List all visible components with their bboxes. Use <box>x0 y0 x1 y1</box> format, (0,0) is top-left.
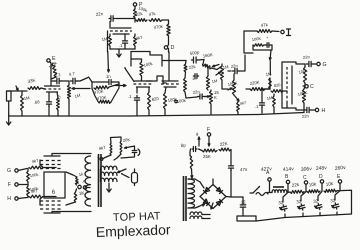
resistor 4k7 s4 <box>234 95 239 115</box>
ground input <box>7 114 11 125</box>
resistor 470K a <box>92 82 119 89</box>
label 470K b <box>96 95 107 101</box>
wire to 470k <box>162 20 169 24</box>
ground V4 <box>117 50 121 57</box>
resistor 10K fb <box>253 44 264 46</box>
label 22n H <box>302 113 310 119</box>
triode V1 <box>44 86 61 92</box>
label 22n top <box>95 11 104 17</box>
resistor 4k7 H <box>29 195 56 198</box>
tube box 6 <box>44 172 65 198</box>
capacitor 47n <box>229 163 248 172</box>
wire fb box <box>253 45 272 50</box>
wire input to grid <box>11 86 27 91</box>
resistor 10k psu a <box>307 190 320 193</box>
junction arrow V2 grid <box>115 85 126 87</box>
speaker jack <box>132 169 138 186</box>
label 100k GF <box>29 172 38 178</box>
title TOP HAT <box>113 210 161 224</box>
capacitor 22n to H <box>304 107 315 112</box>
wire PI rail <box>258 107 304 115</box>
resistor 33K <box>28 87 41 90</box>
resistor 100k s4 divider <box>184 78 187 98</box>
resistor 4k7 G <box>29 166 56 169</box>
svg-text:H: H <box>7 196 11 202</box>
NFB resistor 4k7 <box>98 143 112 155</box>
resistor 470k top <box>167 24 170 36</box>
svg-text:47n: 47n <box>240 167 248 172</box>
resistor 47k top <box>149 19 162 22</box>
wire bridge top corner <box>212 179 214 185</box>
label 100k FH <box>29 186 38 192</box>
svg-text:427v: 427v <box>261 166 273 173</box>
power tube V7 <box>40 197 63 214</box>
label 1k top <box>78 171 84 177</box>
node H in <box>7 196 27 202</box>
svg-text:J: J <box>97 155 99 159</box>
resistor 100k PI top <box>304 64 307 83</box>
capacitor 1n bright <box>92 80 119 85</box>
resistor 820 cathode V2 <box>148 87 151 115</box>
node F in <box>8 182 28 188</box>
resistor 1M V4 <box>109 34 112 49</box>
capacitor 22n to I <box>228 55 245 74</box>
label 4k7 H <box>30 188 38 194</box>
resistor 22k top <box>136 19 147 22</box>
capacitor 22n top <box>109 16 135 21</box>
switch OT jack <box>121 173 129 178</box>
svg-text:C: C <box>303 175 307 181</box>
wire 47n down <box>230 170 232 197</box>
label 22n s4 <box>192 89 200 95</box>
capacitor fb <box>266 35 270 47</box>
resistor 1K screen bottom <box>66 189 77 205</box>
capacitor 32 E <box>330 191 340 215</box>
label 1M s4 <box>222 64 229 70</box>
wire rail right end <box>344 190 352 214</box>
node C psu <box>303 175 308 192</box>
capacitor 1n s4 <box>193 74 198 79</box>
resistor 10k psu b <box>324 189 337 192</box>
label 500p <box>189 50 200 56</box>
capacitor .1 V4 <box>123 34 128 49</box>
resistor 220K <box>246 88 268 91</box>
node A pwr <box>83 179 91 189</box>
label 100K PI bot <box>297 90 308 97</box>
arrow fb down <box>269 50 271 75</box>
node E <box>47 56 56 79</box>
label 1K bottom <box>79 190 86 196</box>
label 10k psu b <box>325 181 334 187</box>
power tube V6 <box>40 156 63 169</box>
label 1M V4 <box>101 36 108 42</box>
capacitor 8u <box>180 142 202 155</box>
triode V2 <box>134 81 153 87</box>
label 414v <box>283 166 295 173</box>
capacitor 32 first <box>240 197 246 216</box>
triode V4 top <box>110 22 132 35</box>
arrow psu down <box>191 169 193 178</box>
svg-text:F: F <box>8 182 11 188</box>
power transformer secondary <box>188 179 195 208</box>
label .1 V4 <box>119 43 123 48</box>
svg-text:H: H <box>322 108 326 114</box>
ground rail psu <box>256 214 352 221</box>
wire bridge out <box>226 196 243 199</box>
label 100k V2 <box>143 61 154 68</box>
label 1M tail <box>266 95 273 101</box>
label 1n <box>106 74 111 79</box>
node G out <box>317 62 327 68</box>
svg-text:20K: 20K <box>122 137 130 143</box>
label 47k top <box>148 11 156 17</box>
capacitor .1 cathode V2 <box>134 87 139 115</box>
label 470K a <box>93 89 104 95</box>
resistor 1k screen top <box>66 172 78 185</box>
standby switch <box>250 186 260 193</box>
pot 10K s4 <box>228 74 236 95</box>
ground rail main <box>9 115 258 117</box>
capacitor 32 B <box>278 192 288 216</box>
choke L1 <box>272 187 287 193</box>
input jack J1 <box>7 91 12 114</box>
label 15K s4 <box>214 90 219 100</box>
power tube V7 plate lead <box>52 212 91 214</box>
label 22k psu2 <box>291 182 300 188</box>
node B psu <box>285 174 290 192</box>
resistor 22k psu <box>287 190 304 193</box>
resistor 1M PI tail <box>273 94 276 113</box>
node A psu <box>266 170 272 193</box>
svg-text:1M: 1M <box>211 78 217 84</box>
node G in <box>7 168 27 174</box>
switch bright <box>77 76 92 82</box>
label 100k s4 divider <box>175 98 187 104</box>
label 306v <box>301 166 313 173</box>
resistor 100k GF <box>27 169 30 185</box>
capacitor 22n to G <box>306 61 316 66</box>
label 427v <box>261 166 273 173</box>
wire box right <box>131 19 162 67</box>
label 10k psu a <box>308 181 317 187</box>
svg-text:K: K <box>214 95 217 100</box>
wire 33K to V1 grid <box>41 88 45 89</box>
svg-text:1n: 1n <box>192 76 196 81</box>
label 100K fb <box>251 36 261 42</box>
label 22k s4 <box>188 64 196 70</box>
power transformer heater winding <box>190 212 210 219</box>
node F psu <box>207 127 211 146</box>
label 2k7 <box>55 94 62 102</box>
label 260v <box>335 165 347 172</box>
label 4.7 <box>68 71 75 77</box>
bridge rectifier D3 <box>213 185 226 197</box>
resistor 1M grid leak <box>21 91 24 116</box>
node E psu <box>337 174 344 191</box>
NFB wires <box>97 137 121 160</box>
label .1 V2 <box>128 94 132 99</box>
power tube V6 plate lead <box>52 154 91 157</box>
node D psu <box>319 174 324 191</box>
output transformer primary <box>85 156 91 206</box>
svg-text:248v: 248v <box>316 165 328 172</box>
wire s4 links <box>206 65 228 90</box>
label 2.2 <box>54 72 61 78</box>
resistor 22K psu <box>219 148 231 151</box>
output transformer core <box>99 154 102 207</box>
resistor 100K PI bottom <box>303 86 306 107</box>
svg-text:G: G <box>7 168 11 174</box>
resistor 820 PI <box>271 90 283 93</box>
label 1M gain <box>74 92 81 98</box>
label 820 PI <box>273 82 281 88</box>
switch V2 grid <box>124 67 134 81</box>
resistor 22k s4 <box>184 61 187 79</box>
node B pwr <box>76 180 81 189</box>
resistor mid s4 <box>207 67 210 90</box>
title Emplexador <box>96 221 172 240</box>
wire PI grid-in <box>283 91 287 108</box>
pot 1M s4 <box>216 64 224 80</box>
capacitor 4.7 <box>70 78 77 83</box>
label 470k top <box>153 24 164 30</box>
arrow bridge gnd <box>203 199 213 209</box>
tube V5 phase inverter <box>282 66 292 104</box>
svg-text:Emplexador: Emplexador <box>96 221 172 240</box>
wire long top-loop <box>108 31 110 72</box>
capacitor 500p s4 <box>163 57 204 63</box>
resistor 100k plate V2 <box>140 59 143 81</box>
tap arrow OT <box>118 169 127 173</box>
wire D to V3 plate <box>168 49 170 53</box>
label 1M PI <box>265 71 272 77</box>
wire cathode bus V4 <box>110 49 135 50</box>
wire I-block left <box>244 31 253 53</box>
wire squiggle <box>256 193 268 196</box>
label 1M mid s4 <box>211 78 217 84</box>
label 4k7 s4 <box>239 100 247 106</box>
label 22K psu <box>219 141 228 147</box>
label 33K <box>27 77 36 84</box>
wire 470k down / D <box>168 36 170 45</box>
bridge rectifier D1 <box>200 185 213 197</box>
resistor psu drop <box>190 156 193 170</box>
wire PI bottom plate <box>282 104 303 110</box>
svg-text:25K: 25K <box>203 154 211 159</box>
label 25K <box>203 154 211 159</box>
wire psu bottom box <box>237 216 256 221</box>
node I <box>281 29 291 36</box>
bridge rectifier D4 <box>213 197 226 209</box>
node D <box>164 45 174 52</box>
triode V3 <box>161 81 179 87</box>
label 100k PI top <box>298 68 309 75</box>
capacitor 32 D <box>313 191 322 215</box>
svg-text:D: D <box>171 45 175 51</box>
NFB pot 20K <box>120 137 132 154</box>
wire bridge in top <box>195 179 204 188</box>
resistor 1M PI grid <box>268 78 271 89</box>
capacitor 32 C <box>296 192 306 216</box>
label 22k top <box>135 11 143 17</box>
label 4k7 G <box>31 158 39 164</box>
capacitor .1 PI <box>260 89 271 113</box>
output transformer secondary <box>101 166 118 181</box>
label 220K <box>249 80 260 86</box>
label 100k E <box>48 60 59 70</box>
wire bridge in bottom <box>195 203 205 208</box>
svg-text:22n: 22n <box>302 113 310 119</box>
node P <box>133 2 143 9</box>
capacitor .68 cathode <box>47 92 52 116</box>
node C <box>303 83 314 90</box>
pot 1M gain <box>68 81 91 116</box>
label 248v <box>316 165 328 172</box>
label 820 V2 <box>151 96 159 102</box>
svg-text:414v: 414v <box>283 166 295 173</box>
label 22n I <box>230 63 238 69</box>
svg-text:22n: 22n <box>230 63 238 69</box>
resistor 100K P <box>134 9 137 18</box>
pot 160K s4 <box>203 60 223 70</box>
wire PI top plate <box>282 62 305 66</box>
resistor 100k cathode V3 <box>164 87 167 115</box>
resistor 2k7 cathode <box>57 92 60 116</box>
label 1n s4 <box>192 76 196 81</box>
wire V3 plate up to D rail <box>168 52 170 81</box>
capacitor 2.2 coupling <box>51 78 69 83</box>
svg-text:22n: 22n <box>303 54 311 60</box>
label .1 PI <box>255 104 259 109</box>
NFB cap network <box>121 146 140 158</box>
label 160K s4 <box>202 52 213 58</box>
resistor 4k7 V4 <box>134 34 137 49</box>
svg-text:B: B <box>76 180 79 185</box>
wire 22K down <box>230 150 232 164</box>
svg-text:C: C <box>310 84 314 90</box>
svg-text:G: G <box>323 62 327 68</box>
capacitor 22n s4 <box>186 94 206 99</box>
resistor 47k I <box>244 30 279 33</box>
label .68 <box>33 99 40 105</box>
label 1M <box>23 95 30 101</box>
svg-text:1n: 1n <box>106 74 111 79</box>
wire V2 plate to V3 grid <box>146 76 166 83</box>
resistor 100k FH <box>27 185 30 198</box>
svg-text:260v: 260v <box>335 165 347 172</box>
svg-text:D: D <box>319 174 323 180</box>
label 4k7 V4 <box>135 35 143 41</box>
arrow psu up <box>195 132 199 146</box>
node H out <box>315 108 325 114</box>
svg-text:22n: 22n <box>192 89 200 95</box>
label 47k I <box>260 22 269 28</box>
svg-text:306v: 306v <box>301 166 313 173</box>
label 22n G <box>303 54 311 60</box>
label 100k V3 <box>167 96 178 103</box>
svg-text:F: F <box>207 127 210 133</box>
pot 25K presence <box>202 149 217 152</box>
ground OT <box>107 183 111 192</box>
power transformer core <box>184 176 187 221</box>
label 100K P <box>138 5 149 13</box>
bridge rectifier D2 <box>200 197 213 209</box>
resistor 100K plate V1 <box>51 63 57 86</box>
resistor 470K b <box>92 84 119 103</box>
label 10K s4 <box>227 80 238 87</box>
pot 15K s4 <box>205 90 213 114</box>
